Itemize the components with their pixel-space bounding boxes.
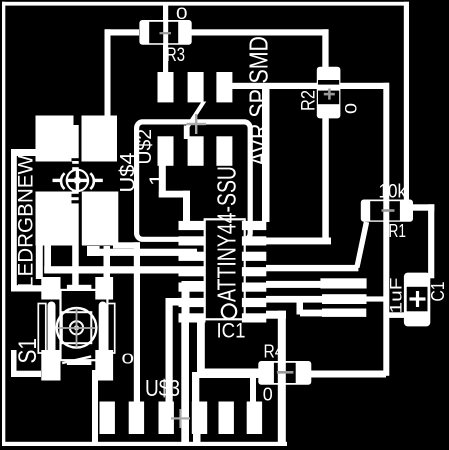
- wire mini vertical bar2 to bar3: [297, 296, 304, 314]
- wire LED BR pad right stub: [113, 242, 140, 248]
- S1 center dot: [74, 325, 79, 330]
- wire IC pad L5 to L7 vertical: [182, 281, 190, 318]
- U$2 package outline box: [137, 122, 251, 239]
- svg-text:0: 0: [342, 103, 361, 114]
- wire IC row2 trace to R2: [266, 238, 331, 245]
- U$2 pad 5: [188, 136, 204, 166]
- U$3 pad 6: [247, 402, 262, 435]
- IC1 pad R2: [242, 236, 266, 245]
- LED U$4 cross arm horizontal: [67, 179, 89, 182]
- S1 big circle: [57, 308, 97, 348]
- wire border left: [2, 2, 5, 446]
- LED U$4 west tick: [53, 179, 62, 182]
- wire left lower vertical: [11, 350, 17, 377]
- svg-text:C1: C1: [428, 282, 448, 302]
- wire border right segment down to R1: [404, 2, 409, 200]
- LED U$4 pad TR: [82, 116, 118, 162]
- IC1 pad L6: [179, 298, 206, 307]
- svg-text:S1: S1: [14, 338, 42, 364]
- wire IC row7 trace: [266, 311, 286, 319]
- wire horizontal through R2 to right: [231, 83, 389, 89]
- capacitor C1 plus: [410, 297, 426, 300]
- wire LED center vertical: [72, 125, 79, 287]
- wire IC row6 trace to bar2: [266, 296, 322, 303]
- wire border top: [2, 2, 409, 6]
- S1 pad BR: [95, 350, 113, 381]
- S1 pad TL: [41, 277, 60, 300]
- wire wide bar2: [322, 294, 367, 304]
- wire S1 BR pad down to border: [92, 370, 98, 445]
- IC1 pad L1: [179, 221, 206, 230]
- U$2 pad 3: [216, 72, 232, 102]
- wire IC row4 trace: [266, 265, 358, 271]
- svg-text:ATTINY44-SSU: ATTINY44-SSU: [212, 166, 241, 302]
- S1 right lever bar: [99, 302, 107, 356]
- resistor R4 body: [258, 361, 311, 385]
- LED U$4 pad TL: [36, 116, 74, 162]
- S1 bottom tab: [67, 360, 92, 365]
- wire R1 to C1 vertical: [428, 204, 434, 278]
- S1 lever line: [62, 355, 91, 364]
- S1 pad BL: [41, 350, 60, 381]
- svg-text:AVR SP SMD: AVR SP SMD: [245, 36, 273, 166]
- svg-text:R1: R1: [389, 221, 407, 241]
- wire IC pad L6 stub: [166, 298, 186, 306]
- capacitor C1 black window: [407, 287, 428, 312]
- U$2 pad 1: [158, 72, 174, 102]
- IC1 pad L3: [179, 252, 206, 261]
- S1 left clip outline: [38, 304, 46, 354]
- IC1 pad L5: [179, 283, 206, 292]
- svg-text:U$3: U$3: [145, 375, 180, 401]
- wire LED pad elbow B: [44, 245, 51, 273]
- LED U$4 pad BR: [82, 192, 119, 246]
- svg-text:IC1: IC1: [217, 319, 246, 343]
- LED U$4 cross arm vertical: [76, 170, 79, 192]
- wire trace A to IC pad L3: [87, 249, 197, 256]
- svg-text:R2: R2: [298, 90, 320, 111]
- resistor R1 body: [361, 200, 413, 222]
- svg-text:10k: 10k: [379, 182, 407, 203]
- wire IC pad L5 stub: [182, 281, 207, 288]
- resistor R3 center dash: [160, 32, 172, 34]
- wire R4 left lead: [199, 369, 259, 379]
- resistor R2 origin cross: [324, 93, 335, 96]
- wire R1 to C1 horizontal: [412, 204, 434, 210]
- S1 right clip outline: [107, 304, 115, 354]
- LED U$4 east tick: [93, 179, 103, 182]
- svg-text:0: 0: [122, 352, 135, 368]
- wire bar3 left stub: [300, 310, 322, 317]
- wire wide bar3: [322, 309, 366, 317]
- wire IC pad L7 down to R4 lead: [197, 318, 205, 372]
- wire LED pad stub A: [87, 246, 100, 256]
- LED U$4 right bracket arc: [90, 173, 94, 189]
- wire R2 bottom vertical to IC row2: [322, 117, 329, 242]
- wire left long vertical: [11, 149, 17, 292]
- svg-text:R3: R3: [166, 45, 185, 66]
- IC1 outline: [205, 219, 245, 319]
- S1 pad TR: [95, 277, 113, 300]
- wire elbow down to LED pad: [105, 29, 111, 116]
- U$3 pad 4: [192, 402, 207, 435]
- svg-text:U$4: U$4: [117, 152, 140, 192]
- IC1 pad L2: [179, 236, 206, 245]
- capacitor C1 body: [404, 273, 430, 327]
- wire U$3 pad4 feed: [192, 372, 199, 403]
- wire U$3 pad4 tail to border: [193, 433, 201, 446]
- svg-text:0: 0: [263, 385, 273, 405]
- wire LED BR pad to S1 TR pad: [104, 246, 111, 279]
- U$2 origin cross: [187, 123, 207, 125]
- wire bar2 right stub to vertical: [366, 296, 385, 301]
- LED U$4 center white disc: [66, 169, 90, 193]
- U$3 origin cross: [171, 417, 190, 419]
- IC1 pad R4: [242, 267, 266, 276]
- wire R4 lead down to U$3 pad6: [250, 374, 256, 403]
- svg-text:LEDRGBNEW: LEDRGBNEW: [15, 155, 38, 288]
- wire R2 top feed vertical: [322, 29, 328, 68]
- wire U$2 diagonal: [185, 102, 207, 128]
- wire U$2 pad4 stair c into IC pad L1: [183, 191, 190, 223]
- S1 origin cross: [58, 327, 96, 329]
- wire R3 feed vertical from top border to U$2 pad1: [163, 4, 168, 73]
- wire U$2 pad4 stair b: [159, 191, 190, 198]
- wire IC pad L7 down to bottom border: [181, 318, 189, 446]
- wire U$2 pad4 stair a: [159, 165, 166, 198]
- resistor R3 body: [139, 20, 191, 45]
- svg-text:R4: R4: [264, 341, 284, 362]
- wire R4 right lead: [311, 371, 386, 378]
- IC1 pin1 circle marker: [222, 304, 236, 318]
- U$3 pad 1: [100, 402, 115, 435]
- LED U$4 center black disc: [68, 171, 87, 190]
- LED U$4 silk dash cuts on trace: [72, 158, 80, 161]
- resistor R2 body: [317, 67, 341, 119]
- resistor R4 origin dash: [277, 371, 294, 374]
- wire LED BL pad to S1 TL pad: [36, 243, 43, 279]
- LED U$4 left bracket arc: [61, 173, 65, 189]
- svg-text:1uF: 1uF: [387, 278, 406, 314]
- wire R3 left lead: [105, 29, 139, 35]
- wire vertical to IC pad R1: [262, 83, 270, 222]
- IC1 pad R6: [242, 298, 266, 307]
- U$3 pad 2: [129, 402, 144, 435]
- wire vertical to U$3 pad3: [166, 298, 173, 405]
- U$3 pad 5: [219, 402, 234, 435]
- wire stub to S1 TL pad: [11, 285, 42, 291]
- wire stub to S1 BL pad: [11, 371, 41, 377]
- U$2 pad 2: [188, 72, 204, 102]
- wire row7 vertical through R4 to border: [278, 311, 286, 446]
- U$3 pad 3: [159, 402, 174, 435]
- IC1 pad L4: [179, 267, 206, 276]
- resistor R1 origin cross: [382, 209, 395, 212]
- S1 top tab: [67, 285, 92, 291]
- wire trace B to IC pad L4: [44, 266, 205, 273]
- S1 small ring: [70, 321, 83, 334]
- wire diagonal row4 to R1: [354, 222, 369, 269]
- IC1 pad L7: [179, 313, 206, 322]
- wire R3 right lead to R2: [191, 29, 329, 35]
- svg-text:0: 0: [176, 5, 188, 23]
- svg-text:1: 1: [147, 173, 169, 186]
- wire C1 left stub: [386, 312, 405, 318]
- wire stub to LED TL pad: [11, 149, 36, 156]
- U$2 pad 4: [158, 136, 174, 166]
- wire border bottom: [2, 442, 287, 446]
- wire wide bar1: [320, 278, 366, 288]
- IC1 pad R5: [242, 283, 266, 292]
- S1 body outline: [61, 290, 108, 360]
- wire long vertical through R1 center down to R4 lead: [383, 83, 389, 376]
- LED U$4 center square: [75, 178, 81, 184]
- IC1 pad R3: [242, 252, 266, 261]
- IC1 pad R1: [242, 221, 266, 230]
- wire IC row5 trace: [266, 281, 322, 288]
- U$2 pad 6: [216, 136, 232, 166]
- wire vertical to U$3 pad2: [134, 242, 140, 402]
- S1 left lever bar: [48, 302, 56, 356]
- S1 inner square: [62, 312, 92, 343]
- IC1 pad R7: [242, 313, 266, 322]
- LED U$4 pad BL: [36, 192, 74, 246]
